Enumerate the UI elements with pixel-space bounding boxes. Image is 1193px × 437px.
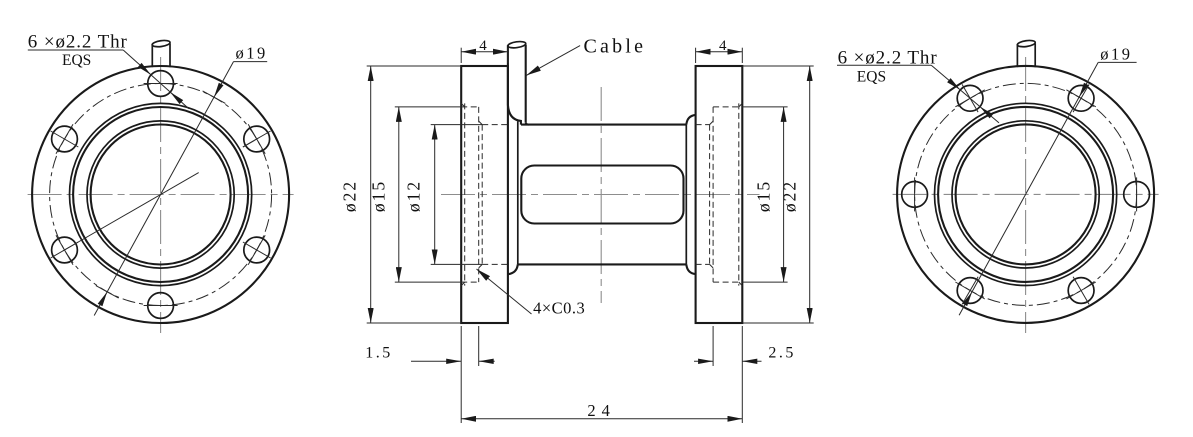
svg-text:1.5: 1.5 [365, 345, 393, 362]
right view: hole center tick at 120 deg [955, 90, 984, 107]
left view: bolt hole Ø2.2 at 30 deg [244, 126, 270, 152]
left view: bolt hole Ø2.2 at 150 deg [52, 126, 78, 152]
right view: horizontal center line [893, 193, 1159, 195]
middle: left flange hidden chamfers [461, 103, 465, 107]
svg-text:4: 4 [719, 38, 727, 54]
left view: dimension Ø19 [94, 62, 233, 316]
svg-text:ø15: ø15 [753, 180, 773, 212]
middle: dimension 4 (left flange width) [460, 48, 462, 63]
middle: dimension 24 [461, 418, 742, 420]
middle: dimension 2.5 [712, 326, 714, 366]
middle: dimension 1.5 [460, 326, 462, 423]
svg-text:4×C0.3: 4×C0.3 [533, 299, 585, 318]
left view: hole center tick at 210 deg [56, 235, 73, 264]
left view: hole center tick at 150 deg [56, 124, 73, 153]
middle: right flange hidden recess Ø15 [713, 106, 742, 108]
middle: bottom-left fillet [508, 264, 518, 274]
right view: hole center tick at 240 deg [955, 282, 984, 299]
middle: left flange hidden recess Ø15 [461, 106, 479, 108]
middle: right flange rectangle [696, 66, 743, 323]
left view: hole center tick at 270 deg [144, 305, 178, 307]
svg-text:EQS: EQS [857, 68, 886, 85]
left view: hole center tick at 90 deg [144, 83, 178, 85]
left view: vertical center line [160, 57, 162, 333]
svg-text:ø12: ø12 [404, 180, 424, 212]
right view: hole center tick at 60 deg [1066, 90, 1095, 107]
middle: center rounded rectangle (sensing section) [521, 166, 683, 224]
middle: vertical center line [600, 87, 602, 303]
middle: Cable label with leader [526, 46, 580, 76]
right view: label 6×Ø2.2 Thr / EQS with leader [837, 64, 931, 66]
left view: recess circle Ø15 [73, 107, 248, 282]
middle: dimension Ø22 right [742, 65, 813, 67]
left view: bolt hole Ø2.2 at 210 deg [52, 237, 78, 263]
left view: hole center tick at 30 deg [248, 124, 265, 153]
svg-text:6 ×ø2.2 Thr: 6 ×ø2.2 Thr [28, 32, 128, 53]
middle: right flange hidden chamfers [739, 103, 743, 107]
svg-text:EQS: EQS [62, 52, 91, 69]
left view: cable [151, 44, 153, 67]
left view: chamfer circle Ø12.6 [87, 121, 234, 268]
svg-text:ø19: ø19 [236, 43, 268, 62]
middle: left flange rectangle [461, 66, 508, 323]
right view: outer circle Ø22 [897, 66, 1154, 323]
middle: right fillet tangent line [685, 125, 687, 265]
middle: shaft top line [521, 124, 686, 126]
right view: recess circle Ø15 [938, 107, 1113, 282]
middle: dimension Ø15 left [395, 106, 461, 108]
svg-text:ø22: ø22 [339, 180, 359, 212]
left view: outer circle Ø22 [32, 66, 289, 323]
middle: horizontal center line [441, 194, 760, 196]
left view: bolt circle Ø19 (dashed) [50, 84, 272, 306]
middle: dimension Ø22 left [367, 65, 462, 67]
right view: chamfer circle Ø15.6 [935, 103, 1117, 285]
right view: bolt circle Ø19 (dashed) [915, 83, 1137, 305]
svg-text:ø15: ø15 [369, 180, 389, 212]
right view: hole center tick at 180 deg [914, 177, 916, 211]
middle: dimension 4 (right flange width) [695, 48, 697, 63]
left view: label 6×Ø2.2 Thr / EQS with leader [28, 49, 123, 51]
middle: left fillet tangent line [517, 121, 519, 264]
right view: hole center tick at 300 deg [1066, 282, 1095, 299]
middle: top-right fillet [686, 115, 695, 125]
right view: bolt hole Ø2.2 at 180 deg [902, 182, 928, 208]
svg-text:24: 24 [587, 401, 616, 420]
middle: cable cylinder [507, 45, 509, 105]
middle: dimension Ø15 right [742, 106, 787, 108]
svg-text:ø22: ø22 [779, 180, 799, 212]
right view: bolt hole Ø2.2 at 120 deg [957, 85, 983, 111]
left view: bolt hole Ø2.2 at 90 deg [148, 71, 174, 97]
middle: shaft bottom line [518, 263, 687, 265]
right view: bore circle Ø12 [956, 124, 1096, 264]
middle: right flange hidden bore Ø12 [696, 124, 710, 126]
right view: chamfer circle Ø12.6 [952, 121, 1099, 268]
left view: diagonal center line 30-210 [63, 138, 259, 251]
right view: bolt hole Ø2.2 at 300 deg [1068, 278, 1094, 304]
middle: label 4×C0.3 with leader [477, 269, 532, 314]
middle: bottom-right fillet [686, 264, 695, 274]
right view: dimension Ø19 [959, 62, 1098, 315]
left view: bore circle Ø12 [91, 125, 231, 265]
left view: bolt hole Ø2.2 at 270 deg [148, 293, 174, 319]
right view: bolt hole Ø2.2 at 0 deg [1124, 182, 1150, 208]
left view: bolt hole Ø2.2 at 330 deg [244, 237, 270, 263]
left view: horizontal center line [28, 194, 294, 196]
svg-text:Cable: Cable [584, 35, 647, 57]
right view: cable [1016, 44, 1018, 67]
left view: hole center tick at 330 deg [248, 235, 265, 264]
svg-text:6 ×ø2.2 Thr: 6 ×ø2.2 Thr [838, 47, 938, 68]
svg-text:2.5: 2.5 [768, 345, 796, 362]
svg-text:4: 4 [479, 38, 487, 54]
right view: bolt hole Ø2.2 at 60 deg [1068, 85, 1094, 111]
svg-text:ø19: ø19 [1100, 44, 1132, 63]
right view: hole center tick at 0 deg [1136, 177, 1138, 211]
middle: dimension Ø12 left [431, 124, 483, 126]
right view: vertical center line [1025, 57, 1027, 333]
middle: left flange hidden bore Ø12 [482, 124, 508, 126]
right view: bolt hole Ø2.2 at 240 deg [957, 278, 983, 304]
left view: chamfer circle Ø15.6 [70, 103, 252, 285]
